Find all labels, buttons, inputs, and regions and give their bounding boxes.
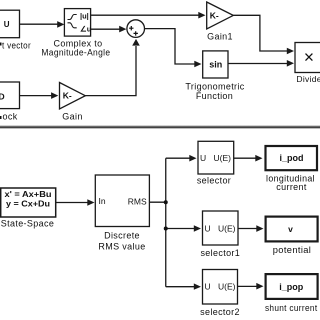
svg-text:U: U xyxy=(205,282,211,292)
svg-text:Function: Function xyxy=(196,91,233,101)
svg-text:U(E): U(E) xyxy=(218,282,236,292)
svg-text:U(E): U(E) xyxy=(214,153,232,163)
svg-text:Magnitude-Angle: Magnitude-Angle xyxy=(41,48,110,58)
svg-text:U(E): U(E) xyxy=(218,223,236,233)
svg-text:In: In xyxy=(99,196,106,206)
svg-text:U: U xyxy=(200,153,206,163)
svg-text:D: D xyxy=(0,92,5,102)
svg-text:K-: K- xyxy=(63,91,72,101)
svg-text:∠u: ∠u xyxy=(80,25,92,34)
svg-text:Discrete: Discrete xyxy=(104,231,140,241)
svg-text:RMS value: RMS value xyxy=(98,242,145,252)
svg-text:selector1: selector1 xyxy=(200,248,240,258)
svg-text:sin: sin xyxy=(209,60,222,70)
svg-text:U: U xyxy=(4,20,10,29)
svg-text:State-Space: State-Space xyxy=(1,219,54,229)
svg-text:RMS: RMS xyxy=(128,196,147,206)
svg-text:i_pop: i_pop xyxy=(279,282,304,292)
svg-text:K-: K- xyxy=(210,10,219,20)
svg-text:ock: ock xyxy=(3,112,18,122)
svg-text:current: current xyxy=(276,182,307,192)
svg-text:i_pod: i_pod xyxy=(280,153,304,163)
svg-text:Gain1: Gain1 xyxy=(207,31,233,41)
svg-text:Gain: Gain xyxy=(62,111,82,121)
svg-text:U: U xyxy=(205,223,211,233)
svg-text:v: v xyxy=(288,224,293,234)
svg-text:t vector: t vector xyxy=(2,41,31,51)
svg-text:x' = Ax+Bu: x' = Ax+Bu xyxy=(5,190,52,199)
svg-text:|u|: |u| xyxy=(80,12,89,21)
svg-text:potential: potential xyxy=(273,245,312,255)
svg-text:shunt current: shunt current xyxy=(265,303,318,313)
svg-text:selector2: selector2 xyxy=(200,307,240,317)
svg-text:y = Cx+Du: y = Cx+Du xyxy=(6,200,50,209)
svg-text:selector: selector xyxy=(197,176,231,186)
svg-text:Divide: Divide xyxy=(296,74,320,84)
